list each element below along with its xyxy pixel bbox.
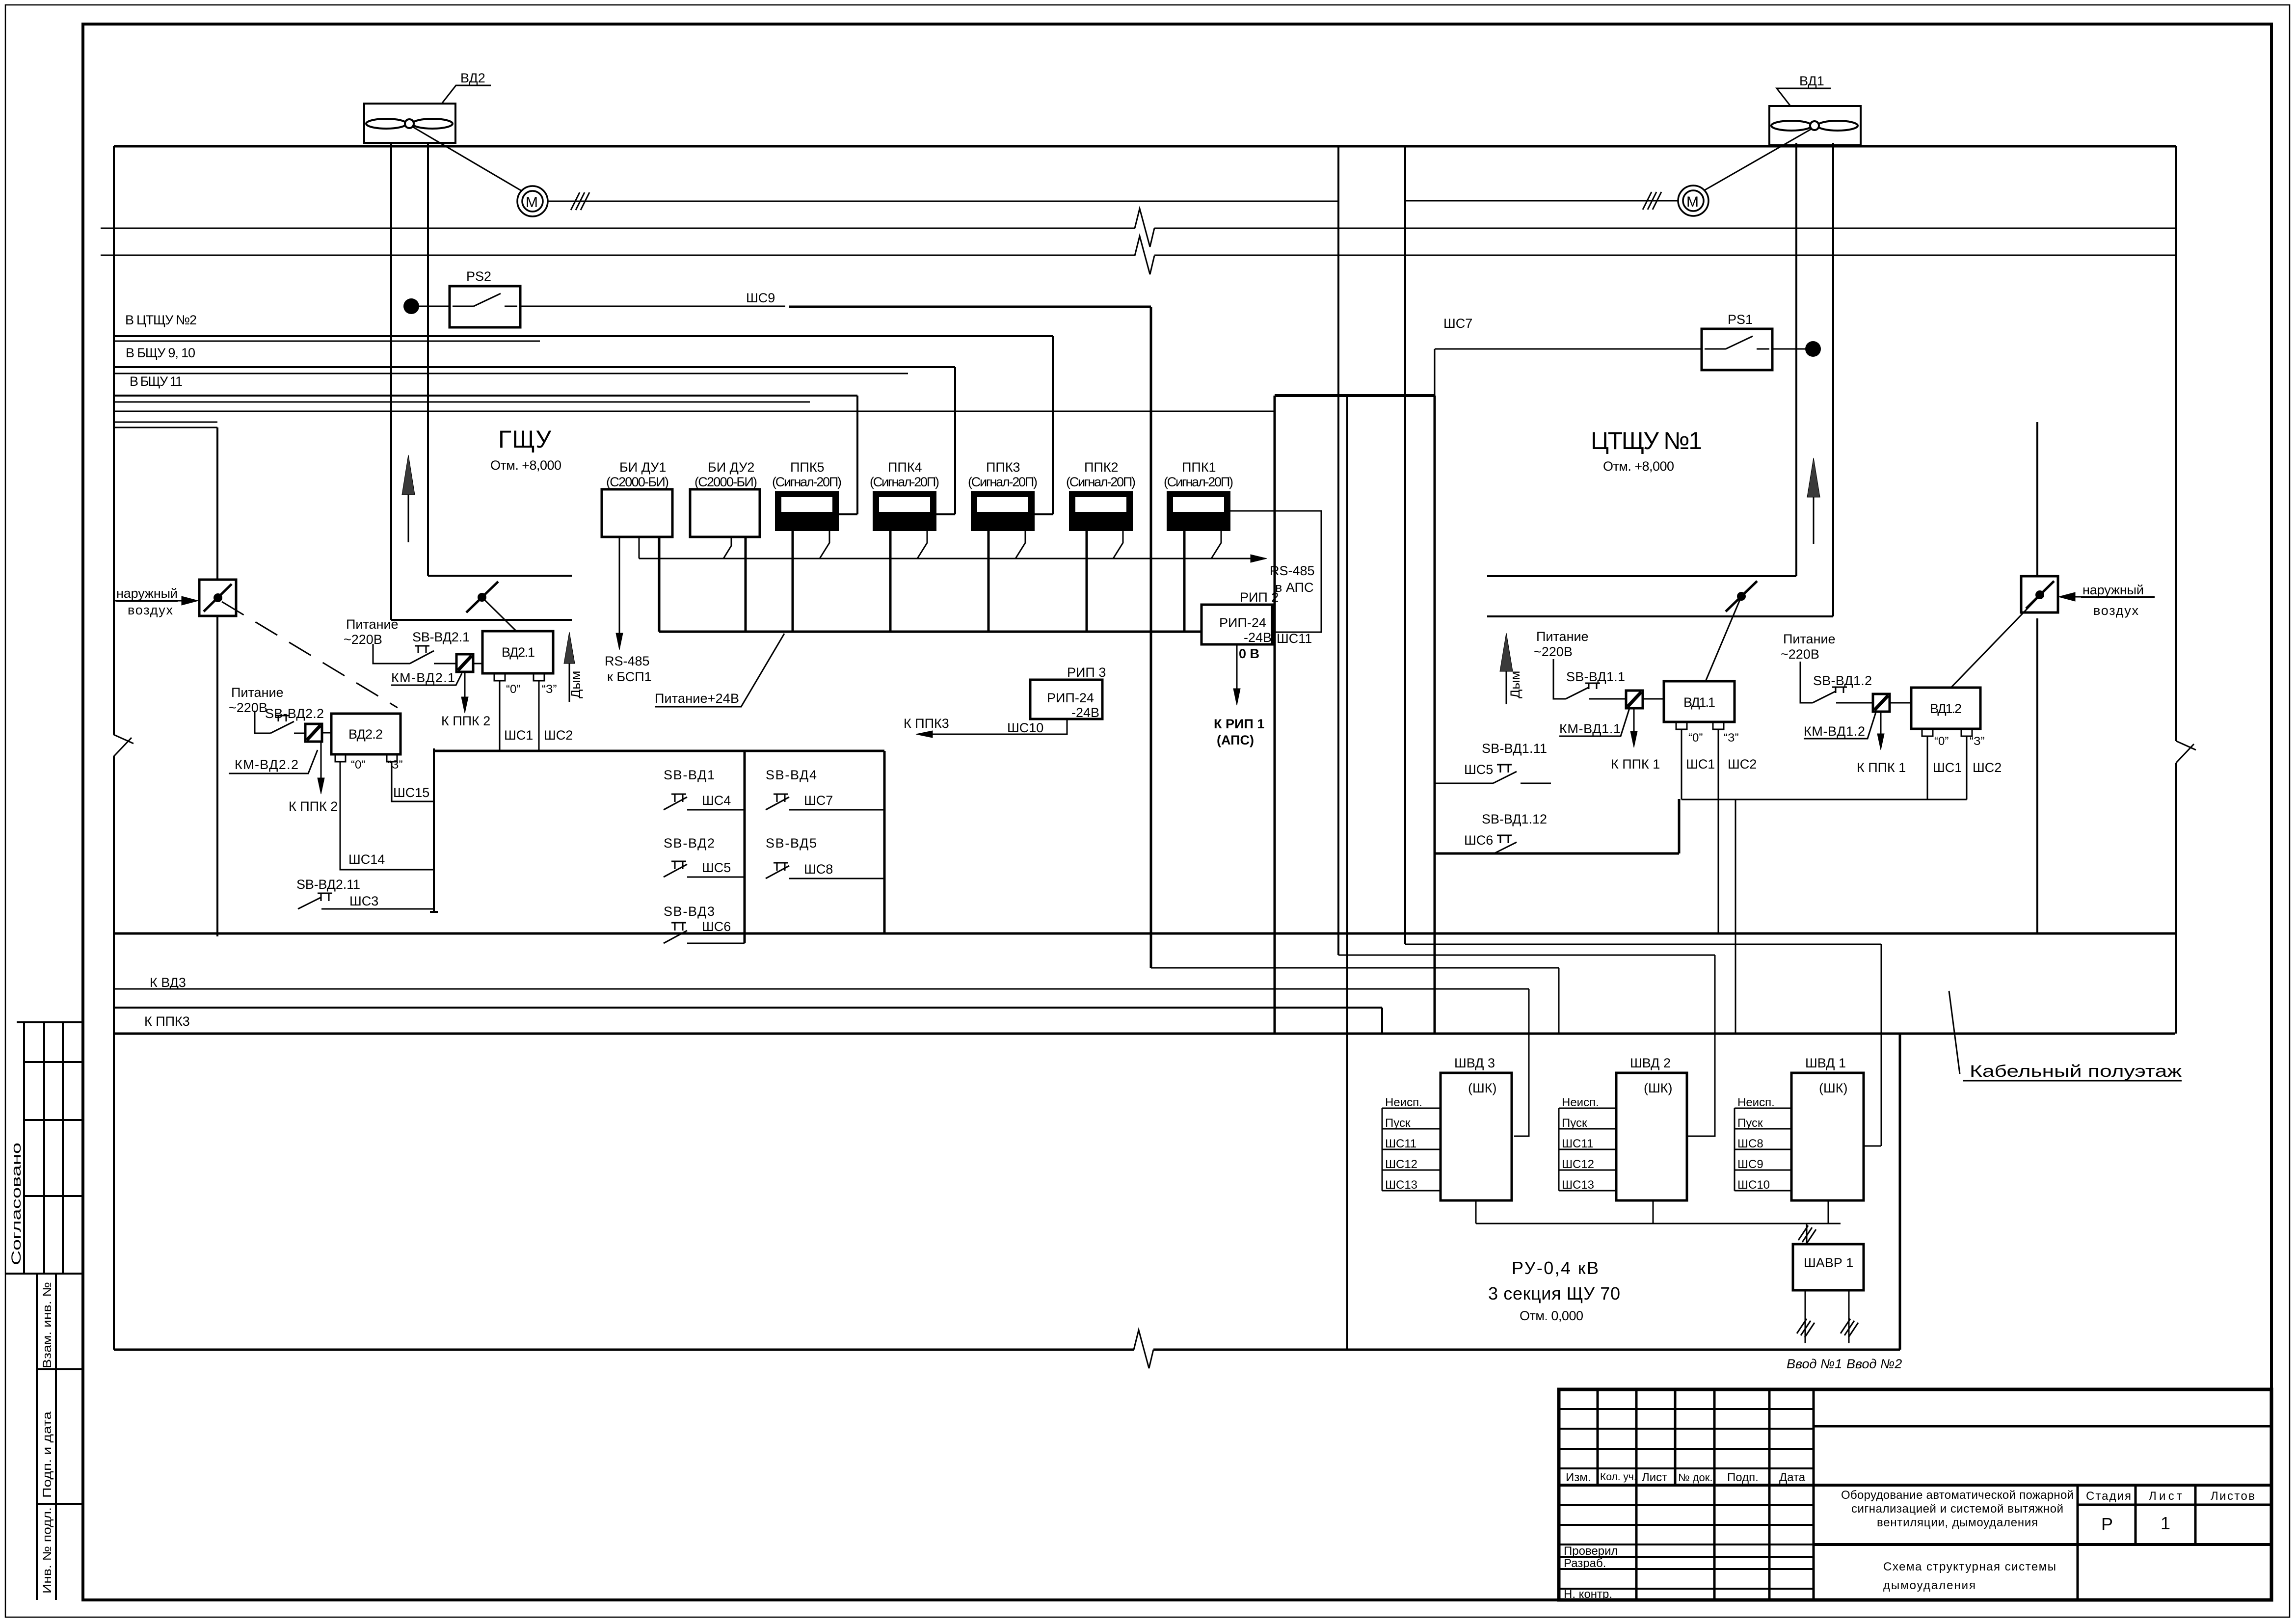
wire ShS3 with SB-VD2.11 — [298, 893, 434, 909]
PS2 switch symbol — [453, 293, 517, 306]
svg-text:ШС5: ШС5 — [702, 860, 731, 875]
svg-text:БИ ДУ2: БИ ДУ2 — [708, 460, 754, 475]
RS-485 line — [639, 558, 1251, 559]
svg-text:сигнализацией и системой вытяж: сигнализацией и системой вытяжной — [1851, 1502, 2063, 1516]
svg-text:SB-ВД1: SB-ВД1 — [664, 768, 715, 782]
svg-text:SB-ВД1.11: SB-ВД1.11 — [1482, 741, 1547, 756]
title block outer — [1559, 1389, 2271, 1600]
24V bus — [659, 631, 1201, 633]
svg-text:ВД1.2: ВД1.2 — [1930, 701, 1962, 716]
CTSHU left wall — [1434, 396, 1436, 1034]
fan VD2 hub — [405, 119, 414, 128]
CTSHU right wall / right fan duct left — [1795, 143, 1797, 576]
svg-text:Изм.: Изм. — [1566, 1471, 1591, 1484]
svg-text:“0”: “0” — [351, 758, 365, 772]
bottom bus — [1476, 1200, 1841, 1224]
svg-text:РУ-0,4 кВ: РУ-0,4 кВ — [1512, 1258, 1599, 1278]
svg-text:ШС11: ШС11 — [1562, 1137, 1593, 1150]
collector VD1.2 — [1682, 799, 1967, 800]
svg-text:КМ-ВД1.2: КМ-ВД1.2 — [1804, 724, 1865, 739]
right building wall — [2175, 146, 2177, 1034]
svg-text:ШС7: ШС7 — [1443, 316, 1472, 331]
channel V BSHU 9,10 — [114, 367, 955, 514]
wire ShS14 from pin 0 — [340, 762, 434, 870]
hatch /// on wire — [571, 192, 589, 210]
PPK4 box — [874, 492, 935, 530]
svg-text:К ППК3: К ППК3 — [144, 1014, 190, 1029]
riser A — [1337, 146, 1339, 955]
svg-text:Лист: Лист — [2149, 1490, 2182, 1503]
svg-text:RS-485: RS-485 — [605, 654, 650, 668]
motor M right wire — [1405, 200, 1678, 202]
svg-text:ШС12: ШС12 — [1562, 1158, 1594, 1171]
svg-text:“0”: “0” — [1688, 731, 1703, 745]
arrow KM-VD2.2 down — [320, 742, 322, 778]
svg-text:К ППК 1: К ППК 1 — [1857, 760, 1906, 775]
title block left columns — [1598, 1389, 1814, 1600]
fan VD1 box — [1769, 106, 1861, 145]
svg-text:1: 1 — [2161, 1513, 2170, 1533]
RIP2 box — [1201, 605, 1272, 644]
ShVD2 row table — [1559, 1108, 1616, 1191]
SB-VD1 row — [664, 794, 745, 810]
svg-text:ППК3: ППК3 — [986, 460, 1020, 475]
svg-text:SB-ВД4: SB-ВД4 — [766, 768, 817, 782]
svg-text:Питание: Питание — [346, 617, 399, 632]
KM-VD1.2 square — [1873, 694, 1890, 712]
arrow KM down to PPK2 — [464, 672, 466, 697]
svg-text:ППК1: ППК1 — [1182, 460, 1216, 475]
left margin lower attachment table — [37, 1274, 56, 1600]
svg-text:К ППК 1: К ППК 1 — [1611, 757, 1660, 772]
PPK1 box — [1168, 492, 1229, 530]
SB panel top — [434, 750, 884, 752]
svg-text:~220В: ~220В — [344, 632, 382, 647]
svg-text:Подп.: Подп. — [1727, 1471, 1759, 1484]
svg-text:ШС8: ШС8 — [804, 862, 833, 877]
break symbol right wall — [2176, 741, 2196, 763]
SB-VD1.11 ShS5 wire — [1435, 765, 1551, 783]
svg-text:(Сигнал-20П): (Сигнал-20П) — [772, 475, 842, 489]
channel V BSHU 11 — [114, 396, 857, 514]
svg-text:ШВД 1: ШВД 1 — [1805, 1056, 1846, 1070]
svg-text:ШС13: ШС13 — [1562, 1178, 1594, 1192]
svg-text:БИ ДУ1: БИ ДУ1 — [619, 460, 666, 475]
svg-text:КМ-ВД1.1: КМ-ВД1.1 — [1559, 721, 1621, 736]
svg-text:ШС1: ШС1 — [504, 728, 533, 743]
wire ShS9 from PS2 — [520, 306, 785, 307]
wires ShS1 ShS2 down to panel — [500, 681, 539, 751]
svg-text:Пуск: Пуск — [1385, 1117, 1411, 1130]
SB-VD2.1 button symbol — [410, 646, 456, 664]
wire L1949 riser A to ShVD2 right — [1338, 955, 1715, 1136]
svg-text:ВД2.1: ВД2.1 — [502, 645, 535, 660]
svg-text:Питание: Питание — [1536, 629, 1589, 644]
wire L1924 riser C to ShVD1 rows — [1405, 944, 1881, 945]
wire level 838 — [114, 411, 1275, 412]
svg-text:ВД2.2: ВД2.2 — [348, 727, 383, 742]
svg-text:Пуск: Пуск — [1737, 1117, 1763, 1130]
svg-text:ШС6: ШС6 — [702, 919, 731, 934]
Dym arrow CTSHU — [1506, 671, 1507, 704]
title block right part lines — [1814, 1425, 2271, 1428]
PPK2 box — [1070, 492, 1132, 530]
svg-text:ШС3: ШС3 — [349, 894, 378, 908]
SB-VD2.2 button symbol — [270, 716, 305, 733]
naruzhny vozduh arrow right — [2075, 596, 2155, 598]
svg-text:SB-ВД1.12: SB-ВД1.12 — [1482, 812, 1547, 826]
fan VD2 blades — [366, 119, 406, 129]
svg-text:ШС10: ШС10 — [1737, 1178, 1770, 1192]
wire KM to VD2.2 — [322, 732, 331, 734]
SB-VD3 row — [664, 923, 745, 943]
svg-text:Инв. № подл.: Инв. № подл. — [41, 1507, 54, 1594]
svg-text:М: М — [1686, 194, 1699, 210]
svg-text:КМ-ВД2.1: КМ-ВД2.1 — [391, 670, 455, 685]
svg-text:воздух: воздух — [2093, 603, 2139, 618]
svg-text:SB-ВД2: SB-ВД2 — [664, 836, 715, 851]
ShVD1 row table — [1735, 1108, 1791, 1191]
damper blade VD2.1 in duct — [466, 582, 498, 612]
svg-text:дымоудаления: дымоудаления — [1883, 1579, 1976, 1592]
motor M left wire — [548, 201, 1338, 202]
GSHU duct turn — [391, 576, 572, 620]
riser C — [1404, 146, 1406, 944]
svg-text:Согласовано: Согласовано — [9, 1143, 24, 1265]
leader damper to VD1.1 — [1706, 596, 1741, 681]
fan VD1 leader — [1777, 88, 1831, 106]
lower level right wall — [1899, 1034, 1901, 1350]
PPK5 box — [776, 492, 838, 530]
svg-text:Дым: Дым — [1508, 671, 1522, 698]
left intake riser — [216, 427, 218, 936]
svg-text:“З”: “З” — [388, 758, 402, 772]
wire drop to ShVD1 right — [1864, 944, 1881, 1146]
svg-text:(ШК): (ШК) — [1819, 1081, 1847, 1095]
svg-text:Кол. уч.: Кол. уч. — [1600, 1471, 1637, 1483]
intermediate line — [101, 255, 2176, 256]
svg-text:РИП 3: РИП 3 — [1067, 665, 1106, 680]
PPK drops to bus — [793, 530, 1184, 632]
svg-text:ШС10: ШС10 — [1007, 720, 1043, 735]
wire dot to PS2 — [411, 306, 450, 307]
svg-text:ШС2: ШС2 — [1973, 760, 2002, 775]
svg-text:0 В: 0 В — [1239, 646, 1259, 661]
svg-text:К ВД3: К ВД3 — [150, 975, 186, 990]
svg-text:Питание+24В: Питание+24В — [655, 691, 739, 706]
ShVD3 row table — [1382, 1108, 1441, 1191]
svg-text:Пуск: Пуск — [1562, 1117, 1587, 1130]
svg-text:Разраб.: Разраб. — [1564, 1557, 1606, 1570]
air flow arrow up right duct — [1813, 497, 1815, 544]
VD1.1 box — [1664, 681, 1735, 722]
svg-text:ВД1.1: ВД1.1 — [1683, 695, 1715, 710]
shaft box top — [1275, 394, 1435, 397]
wires ShS1 ShS2 VD1.2 down — [1927, 736, 1967, 799]
svg-text:ШС14: ШС14 — [348, 852, 385, 867]
power wire 220V VD2.1 — [373, 644, 410, 664]
svg-text:ППК5: ППК5 — [790, 460, 825, 475]
svg-text:ШС13: ШС13 — [1385, 1178, 1417, 1192]
svg-text:К ППК 2: К ППК 2 — [441, 714, 490, 728]
svg-text:ВД2: ВД2 — [460, 71, 485, 85]
svg-text:ГЩУ: ГЩУ — [498, 426, 551, 453]
RIP3 wire ShS10 to PPK3 — [933, 719, 1067, 734]
left margin upper attachment table — [5, 1022, 83, 1274]
svg-text:КМ-ВД2.2: КМ-ВД2.2 — [235, 757, 298, 772]
VD2.2 box — [331, 714, 400, 754]
VD1.2 box — [1911, 688, 1980, 729]
KM-VD1.2 leader — [1804, 711, 1876, 739]
ShAVR1 box — [1793, 1244, 1864, 1290]
VD2.1 box — [482, 631, 553, 673]
svg-text:ППК4: ППК4 — [888, 460, 922, 475]
wires ShS1 ShS2 VD1.1 down — [1682, 729, 1718, 933]
KM-VD2.1 leader — [391, 673, 462, 685]
wire ShS9 contd — [789, 307, 1151, 968]
air flow arrow up left duct — [408, 495, 409, 542]
wire L1974 GSHU wall to ShVD2 rows — [1151, 968, 1559, 1034]
PS1 switch symbol — [1705, 336, 1769, 349]
svg-text:SB-ВД2.1: SB-ВД2.1 — [412, 630, 470, 644]
intake channel top left — [114, 427, 217, 428]
svg-text:наружный: наружный — [116, 586, 178, 601]
channel V CTSHU N2 — [114, 336, 1053, 514]
ShVD1 cabinet box — [1791, 1073, 1864, 1200]
shaft left wall — [1274, 396, 1276, 1034]
svg-text:К ППК3: К ППК3 — [904, 716, 949, 731]
wire ShS7 from PS1 — [1435, 349, 1702, 396]
svg-text:~220В: ~220В — [1534, 644, 1573, 659]
svg-text:Схема структурная системы: Схема структурная системы — [1883, 1560, 2056, 1573]
Dym arrow at VD2.1 — [569, 664, 570, 702]
svg-text:ШВД 2: ШВД 2 — [1630, 1056, 1671, 1070]
dashed line damper to VD2.2 — [222, 602, 398, 708]
svg-text:М: М — [526, 194, 538, 211]
svg-text:ШС2: ШС2 — [1728, 757, 1757, 772]
svg-text:Ввод №2: Ввод №2 — [1846, 1357, 1902, 1371]
svg-text:ШС4: ШС4 — [702, 793, 731, 808]
svg-text:В БЩУ 11: В БЩУ 11 — [130, 374, 183, 389]
outside air damper square left — [199, 580, 236, 616]
arrow KM-VD1.2 down — [1880, 711, 1882, 734]
svg-text:(ШК): (ШК) — [1468, 1081, 1496, 1095]
junction dot PS1 — [1805, 341, 1821, 357]
svg-text:“З”: “З” — [1724, 731, 1738, 745]
svg-text:“З”: “З” — [542, 683, 557, 696]
svg-text:Дым: Дым — [568, 671, 583, 698]
CTSHU bottom wall — [1435, 799, 1679, 853]
ShVD3 cabinet box — [1441, 1073, 1512, 1200]
power wire 220V VD2.2 — [255, 711, 270, 733]
fan VD2 box — [364, 104, 455, 143]
ShVD2 cabinet box — [1616, 1073, 1687, 1200]
svg-text:РИП-24: РИП-24 — [1047, 691, 1094, 705]
svg-text:~220В: ~220В — [1781, 647, 1819, 662]
motor M right — [1678, 186, 1709, 216]
floor line +8.000 upper level — [101, 228, 2176, 229]
PS1 box — [1702, 329, 1772, 370]
SB-VD2 row — [664, 861, 745, 877]
ShAVR inputs — [1805, 1290, 1849, 1343]
shaft line fan VD1 to motor — [1704, 129, 1812, 190]
drop to ShAVR with hatch — [1806, 1224, 1808, 1244]
naruzhny underline right — [2081, 597, 2155, 598]
motor M left — [517, 186, 548, 216]
svg-text:(С2000-БИ): (С2000-БИ) — [694, 475, 757, 489]
svg-text:(ШК): (ШК) — [1644, 1081, 1672, 1095]
riser B / RU room left wall — [1346, 396, 1348, 1350]
VD1.1 pins — [1676, 722, 1687, 729]
svg-text:ШС12: ШС12 — [1385, 1158, 1417, 1171]
svg-text:-24В: -24В — [1244, 630, 1272, 645]
svg-text:Оборудование автоматической по: Оборудование автоматической пожарной — [1841, 1489, 2074, 1502]
svg-text:к БСП1: к БСП1 — [607, 669, 652, 684]
damper blade in CTSHU duct — [1726, 581, 1757, 612]
svg-text:Отм. +8,000: Отм. +8,000 — [490, 458, 561, 473]
ceiling line of GSHU level — [114, 422, 217, 423]
svg-text:(С2000-БИ): (С2000-БИ) — [606, 475, 669, 489]
hatch /// right — [1643, 192, 1661, 210]
svg-text:Проверил: Проверил — [1564, 1544, 1618, 1558]
svg-text:ШС9: ШС9 — [1737, 1158, 1763, 1171]
svg-text:ШС1: ШС1 — [1933, 760, 1962, 775]
wire KM to VD1.1 box — [1642, 698, 1664, 700]
svg-text:В ЦТЩУ №2: В ЦТЩУ №2 — [125, 313, 197, 327]
PS2 box — [450, 286, 520, 327]
BI DU1 drop to bus — [658, 537, 661, 632]
KM-VD1.1 leader — [1559, 708, 1629, 736]
svg-text:PS1: PS1 — [1728, 312, 1753, 327]
svg-text:ШС1: ШС1 — [1686, 757, 1715, 772]
svg-text:SB-ВД5: SB-ВД5 — [766, 836, 817, 851]
svg-text:Неисп.: Неисп. — [1562, 1096, 1599, 1109]
svg-text:ШС9: ШС9 — [746, 291, 775, 305]
svg-text:ЦТЩУ №1: ЦТЩУ №1 — [1591, 427, 1702, 454]
svg-text:в АПС: в АПС — [1275, 580, 1313, 595]
svg-text:“0”: “0” — [1934, 735, 1949, 748]
wire PS1 to dot — [1772, 348, 1813, 350]
outside air damper square right — [2021, 576, 2058, 612]
RIP3 box — [1030, 680, 1102, 719]
svg-text:3 секция ЩУ 70: 3 секция ЩУ 70 — [1488, 1283, 1620, 1304]
svg-text:PS2: PS2 — [466, 269, 491, 284]
svg-text:РИП-24: РИП-24 — [1219, 615, 1266, 630]
svg-text:Отм. 0,000: Отм. 0,000 — [1520, 1308, 1583, 1323]
svg-text:воздух: воздух — [128, 603, 173, 617]
svg-text:SB-ВД2.2: SB-ВД2.2 — [265, 706, 324, 721]
SB panel divider and right wall — [745, 751, 884, 943]
BI DU2 drop to bus — [745, 537, 747, 632]
svg-text:ШС6: ШС6 — [1464, 833, 1493, 848]
break symbol left wall — [114, 735, 133, 756]
svg-text:ШС8: ШС8 — [1737, 1137, 1763, 1150]
svg-text:К ППК 2: К ППК 2 — [289, 799, 338, 814]
wire break symbol on line 465 — [1135, 209, 1154, 247]
svg-text:Отм. +8,000: Отм. +8,000 — [1603, 459, 1674, 474]
Pitanie+24V label leader — [655, 634, 784, 707]
BI DU2 box — [690, 489, 760, 537]
svg-text:Неисп.: Неисп. — [1385, 1096, 1422, 1109]
SB-VD1.12 ShS6 wire — [1435, 835, 1551, 854]
svg-text:ШС2: ШС2 — [544, 728, 573, 743]
fan VD1 hub — [1810, 121, 1819, 130]
svg-text:SB-ВД1.1: SB-ВД1.1 — [1566, 669, 1625, 684]
KM-VD2.1 square — [456, 654, 473, 672]
svg-text:(Сигнал-20П): (Сигнал-20П) — [870, 475, 939, 489]
KM-VD2.2 leader — [229, 750, 318, 773]
svg-text:Подп. и дата: Подп. и дата — [41, 1411, 54, 1498]
svg-text:ВД1: ВД1 — [1799, 74, 1824, 88]
leader cable half-floor — [1949, 991, 2182, 1081]
right fan duct right wall — [1832, 143, 1834, 616]
svg-text:ШС5: ШС5 — [1464, 762, 1493, 777]
fan VD2 leader — [442, 85, 491, 104]
leader damper to VD1.2 — [1951, 599, 2037, 688]
RS-485 to BSP1 arrow — [619, 537, 620, 633]
KM-VD1.1 square — [1626, 691, 1643, 708]
svg-text:ШАВР 1: ШАВР 1 — [1804, 1255, 1853, 1270]
break symbol ground floor — [1134, 1330, 1153, 1368]
PPK3 box — [972, 492, 1034, 530]
svg-text:ППК2: ППК2 — [1084, 460, 1119, 475]
svg-text:~220В: ~220В — [229, 700, 267, 715]
VD2.2 pins — [335, 754, 346, 762]
svg-text:РИП 2: РИП 2 — [1240, 590, 1279, 605]
wire KM to VD2.1 — [473, 663, 482, 665]
power wire VD1.1 — [1553, 659, 1566, 699]
svg-text:В БЩУ 9, 10: В БЩУ 9, 10 — [126, 346, 195, 360]
svg-text:Кабельный полуэтаж: Кабельный полуэтаж — [1970, 1062, 2182, 1081]
title block left rows — [1559, 1409, 1814, 1468]
fan VD1 blades — [1771, 121, 1812, 131]
naruzhny underline — [116, 601, 178, 602]
RIP2 arrow down to RIP1 — [1236, 644, 1238, 689]
svg-text:№ док.: № док. — [1678, 1471, 1713, 1484]
svg-text:ШВД 3: ШВД 3 — [1454, 1056, 1495, 1070]
svg-text:Неисп.: Неисп. — [1737, 1096, 1775, 1109]
left building wall — [113, 146, 115, 1350]
svg-text:наружный: наружный — [2082, 583, 2144, 597]
power wire VD1.2 — [1800, 662, 1813, 703]
VD1.2 pins — [1922, 729, 1933, 736]
wire KM to VD1.2 box — [1890, 702, 1911, 704]
svg-text:(АПС): (АПС) — [1217, 733, 1254, 747]
svg-text:Питание: Питание — [231, 685, 284, 700]
svg-text:вентиляции, дымоудаления: вентиляции, дымоудаления — [1877, 1516, 2038, 1529]
svg-text:Питание: Питание — [1783, 632, 1836, 646]
svg-text:Лист: Лист — [1642, 1471, 1667, 1484]
SB-VD1.1 button — [1566, 683, 1626, 699]
junction dot PS2 — [403, 298, 419, 314]
arrow KM-VD1.1 down — [1633, 708, 1635, 731]
roof line — [114, 145, 2176, 148]
svg-text:“З”: “З” — [1970, 735, 1984, 748]
collector down to wire 1920 — [1735, 799, 1736, 1034]
svg-text:-24В: -24В — [1071, 705, 1099, 720]
ground floor 0.000 — [114, 1349, 1900, 1351]
ShS11 loop from PPK1 — [1229, 511, 1321, 632]
wire K VD3 to ShVD3 right — [114, 989, 1529, 1136]
leader damper to VD2.1 box — [482, 597, 516, 631]
SB-VD4 row — [766, 794, 884, 810]
svg-text:(Сигнал-20П): (Сигнал-20П) — [968, 475, 1038, 489]
svg-text:(Сигнал-20П): (Сигнал-20П) — [1164, 475, 1233, 489]
svg-text:“0”: “0” — [506, 683, 520, 696]
CTSHU duct turn — [1487, 576, 1833, 616]
svg-text:Листов: Листов — [2211, 1490, 2255, 1503]
floor of +8.000 rooms / line A — [114, 932, 2176, 935]
